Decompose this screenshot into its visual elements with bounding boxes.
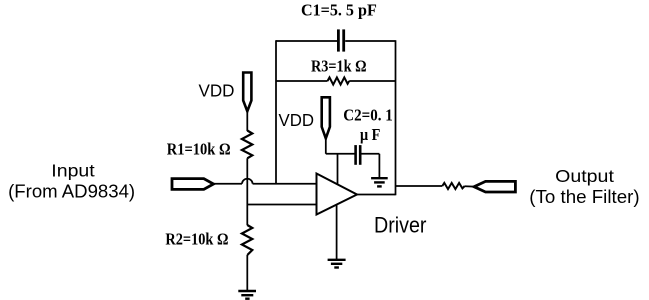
wire hop to op-amp noninverting input: [253, 183, 317, 185]
output terminal: [474, 181, 515, 192]
ground below C2: [371, 178, 388, 186]
svg-text:Output: Output: [555, 166, 614, 186]
wire down to C2 ground: [378, 154, 380, 178]
svg-text:(To the Filter): (To the Filter): [529, 187, 639, 207]
ground below R2: [238, 291, 256, 299]
wire VDD2 down: [325, 138, 327, 154]
wire hop over R1/R2 line: [242, 179, 253, 184]
wire output resistor to terminal: [465, 185, 475, 187]
svg-text:(From AD9834): (From AD9834): [8, 182, 135, 202]
resistor R1: [242, 131, 252, 159]
ground below op-amp: [328, 260, 346, 268]
resistor at output: [442, 183, 464, 189]
wire R1 down through hop to R2: [246, 158, 248, 225]
power VDD symbol 2: [322, 97, 330, 138]
svg-text:C1=5. 5 pF: C1=5. 5 pF: [301, 0, 377, 19]
svg-text:VDD: VDD: [199, 81, 235, 101]
wire C1 to right: [345, 40, 395, 42]
wire VDD2 node to C2: [326, 153, 355, 155]
wire right vertical of feedback loops: [395, 40, 397, 195]
wire divider node to op-amp inverting input: [247, 204, 318, 206]
wire left vertical of feedback loops: [275, 40, 277, 184]
wire op-amp output to feedback vertical: [357, 194, 396, 196]
wire C2 to ground corner: [362, 153, 380, 155]
op-amp U1: [317, 174, 358, 215]
power VDD symbol 1: [243, 73, 251, 112]
wire op-amp V- pin to ground: [336, 205, 338, 260]
svg-text:R2=10k Ω: R2=10k Ω: [165, 229, 228, 248]
svg-text:C2=0. 1: C2=0. 1: [343, 105, 393, 124]
wire output node to output resistor: [396, 185, 443, 187]
svg-text:μ F: μ F: [360, 125, 380, 144]
svg-text:Input: Input: [51, 161, 95, 181]
wire input terminal to hop: [214, 183, 243, 185]
wire R3 row left segment: [276, 80, 328, 82]
capacitor C2: [356, 145, 361, 165]
input terminal: [172, 179, 214, 190]
wire R2 to ground: [246, 255, 248, 291]
capacitor C1: [338, 29, 343, 51]
resistor R2: [242, 225, 252, 255]
resistor R3: [328, 77, 350, 84]
wire top feedback loop left segment to C1: [276, 40, 337, 42]
svg-text:VDD: VDD: [279, 110, 315, 130]
wire op-amp V+ pin: [337, 154, 339, 188]
svg-text:R1=10k Ω: R1=10k Ω: [167, 139, 231, 158]
wire VDD1 to R1: [246, 112, 248, 132]
svg-text:Driver: Driver: [374, 212, 427, 237]
svg-text:R3=1k Ω: R3=1k Ω: [311, 57, 367, 76]
wire R3 row right segment: [349, 80, 395, 82]
